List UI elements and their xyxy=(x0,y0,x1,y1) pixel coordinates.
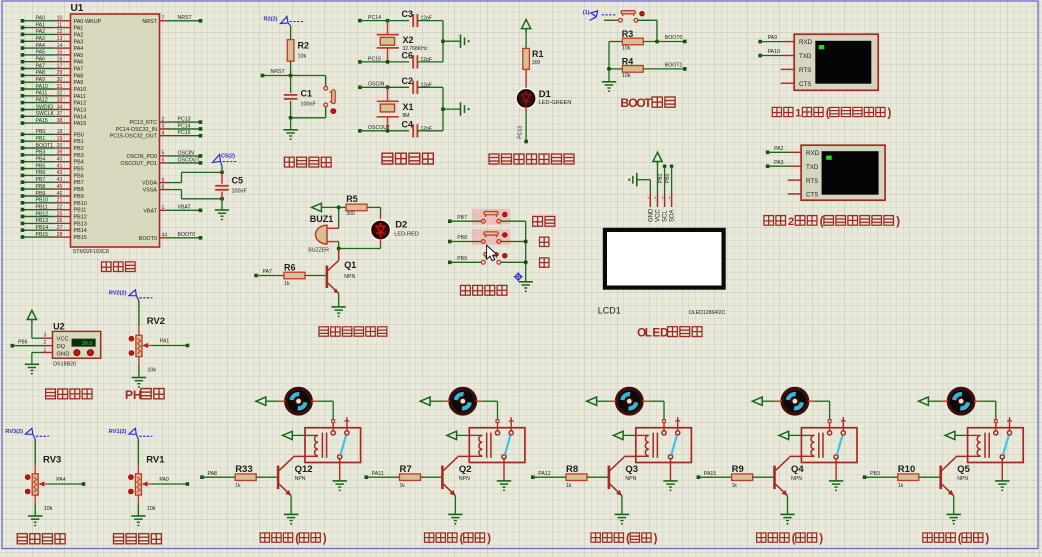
transistor Q12 NPN xyxy=(278,456,312,514)
ground xyxy=(283,130,297,140)
node PA2 wire xyxy=(766,146,801,154)
svg-text:PC15-OSC32_OUT: PC15-OSC32_OUT xyxy=(110,134,158,140)
svg-text:OSCIN: OSCIN xyxy=(178,150,195,156)
svg-text:PB6: PB6 xyxy=(74,173,84,179)
U1 pin 31 PA10 wire xyxy=(21,84,87,93)
svg-text:RXD: RXD xyxy=(806,150,820,157)
svg-text:CTS: CTS xyxy=(806,192,818,199)
svg-text:PC14-OSC32_IN: PC14-OSC32_IN xyxy=(116,127,157,133)
relay 继电器(加水) xyxy=(968,417,1024,481)
pin RTS stub xyxy=(781,68,795,70)
label OLED xianshiping xyxy=(637,327,702,340)
U1 pin 12 PA2 wire xyxy=(21,29,84,38)
svg-text:PC15: PC15 xyxy=(178,130,191,136)
svg-text:NRST: NRST xyxy=(142,19,157,25)
net label arrow (1) xyxy=(583,10,616,21)
svg-text:R1: R1 xyxy=(532,49,544,59)
svg-text:PB10: PB10 xyxy=(36,198,49,204)
wire motor to relay xyxy=(808,401,830,420)
svg-text:R9: R9 xyxy=(732,464,744,475)
svg-text:30.0: 30.0 xyxy=(82,341,93,347)
svg-text:SCL: SCL xyxy=(663,210,669,222)
power arrow relay coil xyxy=(779,431,802,439)
svg-text:R5: R5 xyxy=(346,194,358,204)
svg-text:33: 33 xyxy=(57,97,63,103)
pin CTS stub xyxy=(781,82,795,84)
power arrow xyxy=(522,19,531,32)
svg-text:PA11: PA11 xyxy=(74,94,86,100)
wire left bus xyxy=(607,42,611,82)
svg-text:BOOT1: BOOT1 xyxy=(36,143,54,149)
svg-text:PB11: PB11 xyxy=(36,205,48,211)
svg-text:25: 25 xyxy=(57,211,63,217)
ground xyxy=(333,481,347,491)
svg-text:PA4: PA4 xyxy=(56,477,66,483)
svg-text:PA15: PA15 xyxy=(36,118,48,124)
power arrow relay coil xyxy=(613,431,636,439)
svg-text:37: 37 xyxy=(57,111,63,117)
net label arrow RV1(2) xyxy=(109,428,153,439)
U1 pin 20 BOOT1 wire xyxy=(21,143,84,152)
svg-text:PA4: PA4 xyxy=(74,46,84,52)
svg-text:PA15: PA15 xyxy=(74,121,87,127)
U1 pin 32 PA11 wire xyxy=(21,91,86,100)
svg-text:42: 42 xyxy=(57,170,63,176)
svg-text:10k: 10k xyxy=(147,506,156,512)
svg-text:PB13: PB13 xyxy=(74,221,87,227)
svg-text:OSCOUT: OSCOUT xyxy=(178,157,201,163)
svg-text:PB9: PB9 xyxy=(74,194,84,200)
node PA3 wire xyxy=(766,160,801,168)
svg-text:PA7: PA7 xyxy=(74,67,84,73)
svg-text:PA11: PA11 xyxy=(372,471,384,477)
svg-text:): ) xyxy=(323,532,327,545)
pot wiper node PA1 xyxy=(142,339,189,349)
U1 pin 43 PB7 wire xyxy=(21,177,84,186)
svg-text:BOOT0: BOOT0 xyxy=(665,35,683,41)
svg-text:C5: C5 xyxy=(232,176,244,186)
net label arrow RV3(2) xyxy=(5,428,49,439)
svg-text:RV1(2): RV1(2) xyxy=(109,429,127,435)
svg-text:BUZZER: BUZZER xyxy=(308,247,329,253)
svg-text:PB9: PB9 xyxy=(36,191,46,197)
U1 pin 5 OSCIN_PD0 wire xyxy=(126,150,202,160)
label dulianjian xyxy=(461,285,507,295)
svg-text:PB0: PB0 xyxy=(36,129,46,135)
svg-text:PA2: PA2 xyxy=(36,29,46,35)
U1 pin 28 PB15 wire xyxy=(21,232,87,241)
svg-text:46: 46 xyxy=(57,191,63,197)
svg-text:1k: 1k xyxy=(898,483,904,489)
svg-text:RTS: RTS xyxy=(806,178,818,185)
label 继电器(净化) xyxy=(591,532,658,545)
svg-text:CTS: CTS xyxy=(799,81,811,88)
transistor Q5 NPN xyxy=(941,456,971,514)
svg-text:27: 27 xyxy=(57,225,63,231)
U1 pin 17 PA7 wire xyxy=(21,63,84,72)
U1 pin 2 PC13_RTC wire xyxy=(130,117,203,127)
svg-text:PB4: PB4 xyxy=(36,157,46,163)
U1 pin 37 SWCLK wire xyxy=(21,111,87,120)
svg-text:BUZ1: BUZ1 xyxy=(310,214,334,224)
svg-text:(: ( xyxy=(295,532,299,545)
label PB9 key xyxy=(540,258,549,267)
svg-text:PB8: PB8 xyxy=(36,184,46,190)
svg-text:PA10: PA10 xyxy=(768,49,780,55)
svg-text:10k: 10k xyxy=(298,54,307,60)
U1 pin 16 PA6 wire xyxy=(21,57,84,66)
svg-text:PA1: PA1 xyxy=(36,22,46,28)
svg-text:BOOT0: BOOT0 xyxy=(178,232,196,238)
svg-text:PB5: PB5 xyxy=(36,163,46,169)
svg-text:PC13: PC13 xyxy=(178,117,191,123)
svg-text:PA3: PA3 xyxy=(74,39,84,45)
resistor R7 1k node PA11 xyxy=(365,464,442,489)
svg-text:SWCLK: SWCLK xyxy=(36,111,55,117)
svg-text:VCC: VCC xyxy=(57,337,69,343)
svg-text:(: ( xyxy=(792,532,796,545)
wire VCC pin 3 xyxy=(32,337,53,339)
U1 pin 41 PB5 wire xyxy=(21,163,84,172)
U1 pin 19 PB1 wire xyxy=(21,136,84,145)
svg-text:13: 13 xyxy=(57,36,63,42)
relay 继电器(抽水) xyxy=(801,417,857,481)
chip U1 STM32F103C8 xyxy=(71,3,160,255)
U1 pin 7 NRST wire xyxy=(142,15,202,25)
svg-text:C1: C1 xyxy=(301,89,313,99)
resistor R6 1k node PA7 xyxy=(254,263,325,287)
transistor Q2 NPN xyxy=(442,456,471,514)
U1 pin 6 OSCOUT_PD1 wire xyxy=(120,157,202,167)
pot wiper node PA4 xyxy=(38,477,85,487)
key highlight xyxy=(472,229,511,245)
svg-text:1k: 1k xyxy=(284,281,290,287)
svg-text:PB6: PB6 xyxy=(36,170,46,176)
svg-text:1: 1 xyxy=(647,196,649,200)
U1 pin 38 PA15 wire xyxy=(21,118,87,127)
svg-text:U2: U2 xyxy=(53,322,65,332)
OLED display LCD1 xyxy=(598,228,726,316)
OLED pin VCC xyxy=(656,165,662,222)
svg-text:DS18B20: DS18B20 xyxy=(53,362,76,368)
key button node PB9 xyxy=(448,253,526,265)
svg-text:10k: 10k xyxy=(147,367,156,373)
label chuankou2 xyxy=(764,214,900,228)
svg-text:TXD: TXD xyxy=(806,164,819,171)
OLED pin SCL node PB1 xyxy=(658,164,669,222)
node OSCOUT wire xyxy=(358,125,409,133)
svg-text:C5(2): C5(2) xyxy=(221,154,235,160)
origin marker xyxy=(514,272,523,281)
svg-text:10k: 10k xyxy=(622,46,631,52)
svg-text:C3: C3 xyxy=(402,9,414,19)
label cewenmokuai xyxy=(46,389,92,399)
label RV3 zh xyxy=(17,534,65,544)
svg-text:100nF: 100nF xyxy=(232,189,248,195)
label PB8 key xyxy=(540,237,549,246)
wire C5 to ground xyxy=(221,199,223,210)
svg-text:38: 38 xyxy=(57,118,63,124)
U1 pin 9 VDDA wire xyxy=(142,177,168,186)
svg-text:PC14: PC14 xyxy=(178,123,191,129)
power arrow OLED VCC xyxy=(653,152,662,165)
motor fan Q5 block xyxy=(948,389,973,414)
U1 pin 11 PA1 wire xyxy=(21,22,84,31)
capacitor C6 12pF xyxy=(402,50,444,68)
ground xyxy=(663,481,677,491)
ground xyxy=(25,364,39,374)
svg-text:): ) xyxy=(896,214,900,228)
node PA10 wire xyxy=(758,49,794,57)
svg-text:PA12: PA12 xyxy=(538,471,550,477)
svg-text:PB7: PB7 xyxy=(457,215,467,221)
wire GND pin 1 xyxy=(32,353,53,365)
label shengguangbaojingdianlu xyxy=(319,327,387,336)
svg-text:LED-GREEN: LED-GREEN xyxy=(539,100,572,106)
power arrow relay coil xyxy=(283,431,306,439)
node NRST wire xyxy=(261,69,326,77)
label zhuxinpian xyxy=(102,262,136,272)
wire motor to relay xyxy=(312,401,334,420)
U1 pin 44 BOOT0 wire xyxy=(139,232,203,242)
capacitor C1 100nF xyxy=(284,76,317,118)
svg-text:OSCIN_PD0: OSCIN_PD0 xyxy=(126,154,157,160)
ground xyxy=(284,514,298,524)
svg-text:10k: 10k xyxy=(622,73,631,79)
svg-text:BOOT1: BOOT1 xyxy=(665,63,683,69)
svg-text:RV1: RV1 xyxy=(146,454,165,465)
ground xyxy=(947,514,961,524)
svg-text:NPN: NPN xyxy=(957,476,968,482)
svg-text:R7: R7 xyxy=(400,464,412,475)
svg-text:): ) xyxy=(819,532,823,545)
U1 pin 4 PC15-OSC32_OUT wire xyxy=(110,130,203,140)
svg-text:PB8: PB8 xyxy=(74,187,84,193)
svg-text:PA9: PA9 xyxy=(36,77,46,83)
key highlight xyxy=(472,209,511,225)
svg-text:2: 2 xyxy=(788,216,794,228)
svg-text:VCC: VCC xyxy=(656,209,662,222)
ground xyxy=(461,102,470,116)
svg-text:PA9: PA9 xyxy=(768,35,778,41)
power arrow motor xyxy=(420,397,450,405)
ground OLED xyxy=(628,173,650,194)
wire C1 bottom xyxy=(289,116,326,130)
svg-text:Q2: Q2 xyxy=(459,464,472,475)
svg-text:U1: U1 xyxy=(71,3,84,14)
svg-text:PB7: PB7 xyxy=(74,180,84,186)
svg-text:39: 39 xyxy=(57,150,63,156)
svg-text:PA12: PA12 xyxy=(36,97,48,103)
svg-text:12: 12 xyxy=(57,29,63,35)
svg-text:SWDIO: SWDIO xyxy=(36,104,54,110)
svg-text:31: 31 xyxy=(57,84,63,90)
power arrow motor xyxy=(256,397,286,405)
svg-text:OSCIN: OSCIN xyxy=(368,82,385,88)
svg-text:PA0-WKUP: PA0-WKUP xyxy=(74,19,102,25)
svg-text:RTS: RTS xyxy=(799,67,811,74)
svg-text:R6: R6 xyxy=(284,263,296,273)
resistor R9 1k node PA15 xyxy=(697,464,774,489)
label 继电器(加碱) xyxy=(425,532,492,545)
wire VSSA to C5 xyxy=(168,190,224,201)
U1 pin 46 PB9 wire xyxy=(21,191,84,200)
key button node PB7 xyxy=(448,212,526,224)
svg-text:PA5: PA5 xyxy=(36,50,46,56)
svg-text:): ) xyxy=(654,532,658,545)
svg-text:PA7: PA7 xyxy=(36,63,46,69)
svg-text:29: 29 xyxy=(57,70,63,76)
U1 pin 42 PB6 wire xyxy=(21,170,84,179)
U1 pin 18 PB0 wire xyxy=(21,129,84,138)
motor fan Q4 block xyxy=(782,389,807,414)
svg-text:RV2(2): RV2(2) xyxy=(109,291,127,297)
svg-text:VBAT: VBAT xyxy=(143,208,157,214)
svg-text:20: 20 xyxy=(57,143,63,149)
OLED pin numbers xyxy=(647,196,670,200)
U1 pin 30 PA9 wire xyxy=(21,77,84,86)
label fuweidianlu xyxy=(284,157,331,167)
svg-text:X1: X1 xyxy=(403,102,414,112)
svg-text:4: 4 xyxy=(668,196,670,200)
svg-text:28: 28 xyxy=(57,232,63,238)
wire motor to relay xyxy=(476,401,498,420)
svg-text:PB3: PB3 xyxy=(36,150,46,156)
svg-text:11: 11 xyxy=(57,22,62,28)
svg-text:VSSA: VSSA xyxy=(143,188,158,194)
ground xyxy=(215,210,229,220)
svg-text:PB7: PB7 xyxy=(36,177,46,183)
svg-text:RV3(2): RV3(2) xyxy=(5,429,23,435)
svg-text:PB15: PB15 xyxy=(74,235,87,241)
svg-text:RV3: RV3 xyxy=(43,454,61,465)
svg-text:): ) xyxy=(487,532,491,545)
OLED pin SDA node PB0 xyxy=(665,164,676,222)
U1 pin 33 PA12 wire xyxy=(21,97,87,106)
power arrow relay coil xyxy=(447,431,470,439)
svg-text:PC15: PC15 xyxy=(368,56,381,62)
svg-text:PB2: PB2 xyxy=(74,146,84,152)
OLED pin GND xyxy=(648,194,654,223)
svg-text:NPN: NPN xyxy=(791,476,802,482)
svg-text:PB8: PB8 xyxy=(457,235,467,241)
svg-text:GND: GND xyxy=(57,351,70,357)
svg-text:18: 18 xyxy=(57,129,63,135)
svg-text:PA8: PA8 xyxy=(208,471,218,477)
svg-text:(: ( xyxy=(460,532,464,545)
svg-text:19: 19 xyxy=(57,136,63,142)
U1 pin 21 PB10 wire xyxy=(21,198,87,207)
svg-text:PB12: PB12 xyxy=(36,211,49,217)
svg-text:8M: 8M xyxy=(403,113,410,119)
svg-text:TXD: TXD xyxy=(799,53,812,60)
node PC14 wire xyxy=(358,15,409,23)
svg-text:PB14: PB14 xyxy=(74,228,87,234)
svg-text:PA3: PA3 xyxy=(774,160,784,166)
svg-text:PA15: PA15 xyxy=(704,471,716,477)
svg-text:VDDA: VDDA xyxy=(142,181,157,187)
transistor Q4 NPN xyxy=(775,456,805,514)
ground xyxy=(602,82,616,92)
svg-text:PA7: PA7 xyxy=(263,269,273,275)
svg-text:R2(2): R2(2) xyxy=(264,17,278,23)
capacitor C2 12pF xyxy=(402,76,444,94)
svg-text:D1: D1 xyxy=(539,89,552,100)
svg-text:VBAT: VBAT xyxy=(178,205,192,211)
U1 pin 22 PB11 wire xyxy=(21,205,87,214)
ground xyxy=(497,481,511,491)
U1 pin 27 PB14 wire xyxy=(21,225,87,234)
label chengxuyunxingzhishideng xyxy=(489,154,574,164)
ground xyxy=(615,514,629,524)
svg-text:): ) xyxy=(888,108,892,120)
pot wiper node PA0 xyxy=(142,477,190,487)
mouse cursor xyxy=(487,245,498,260)
resistor R10 1k node PB3 xyxy=(863,464,940,489)
svg-text:): ) xyxy=(985,532,989,545)
svg-text:PA3: PA3 xyxy=(36,36,46,42)
svg-text:Q5: Q5 xyxy=(957,464,970,475)
svg-text:SDA: SDA xyxy=(670,210,676,222)
power arrow motor xyxy=(752,397,782,405)
ground xyxy=(995,481,1009,491)
svg-text:Q1: Q1 xyxy=(344,260,356,270)
ground xyxy=(448,514,462,524)
relay 继电器(加碱) xyxy=(469,417,525,481)
svg-text:NPN: NPN xyxy=(344,274,355,280)
resistor R1 300 xyxy=(523,32,544,69)
svg-text:R4: R4 xyxy=(622,57,634,67)
virtual terminal serial window 2 xyxy=(801,145,885,200)
svg-text:PB0: PB0 xyxy=(74,132,84,138)
ground xyxy=(28,516,42,526)
net label arrow RV2(2) xyxy=(109,290,152,301)
svg-text:OLED12864I2C: OLED12864I2C xyxy=(689,310,726,316)
svg-text:PA10: PA10 xyxy=(36,84,48,90)
potentiometer RV1 10k xyxy=(129,439,166,516)
svg-text:C6: C6 xyxy=(402,50,414,60)
svg-text:300: 300 xyxy=(532,60,541,66)
svg-text:PA12: PA12 xyxy=(74,101,87,107)
power arrow motor xyxy=(919,397,949,405)
svg-text:22: 22 xyxy=(57,205,63,211)
svg-text:PC14: PC14 xyxy=(368,15,381,21)
U1 pin 15 PA5 wire xyxy=(21,50,84,59)
svg-text:PA8: PA8 xyxy=(74,73,84,79)
svg-text:R10: R10 xyxy=(898,464,915,475)
relay 继电器(净化) xyxy=(636,417,692,481)
svg-text:PB5: PB5 xyxy=(74,167,84,173)
label 继电器(抽水) xyxy=(757,532,824,545)
LED D1 LED-GREEN xyxy=(516,69,571,108)
capacitor C5 100nF xyxy=(215,172,247,198)
svg-text:2: 2 xyxy=(654,196,656,200)
ground xyxy=(519,282,533,292)
svg-text:10k: 10k xyxy=(44,506,53,512)
LED D2 LED-RED xyxy=(339,207,419,248)
label RV1 zh xyxy=(114,534,162,544)
svg-text:PB3: PB3 xyxy=(74,153,84,159)
transistor Q1 NPN xyxy=(327,260,356,307)
svg-text:PA1: PA1 xyxy=(160,339,170,345)
svg-text:C4: C4 xyxy=(402,119,414,129)
node PB6 wire DQ pin 2 xyxy=(11,339,53,347)
svg-text:1k: 1k xyxy=(732,483,738,489)
svg-text:STM32F103C8: STM32F103C8 xyxy=(73,249,110,255)
svg-text:26: 26 xyxy=(57,218,63,224)
svg-text:3: 3 xyxy=(661,196,663,200)
power arrow U2 xyxy=(27,310,36,338)
